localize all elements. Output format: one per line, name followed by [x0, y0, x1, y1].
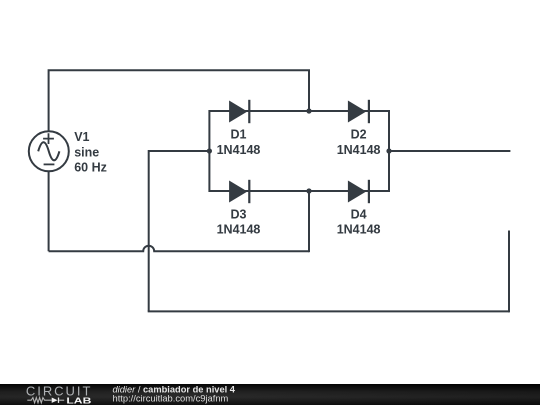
svg-text:1N4148: 1N4148: [217, 223, 261, 237]
wire left tap vertical down: [148, 150, 150, 311]
label D2: [337, 128, 381, 157]
svg-text:D1: D1: [231, 128, 247, 142]
junction node top center: [306, 108, 311, 113]
wire bridge bottom rail: [209, 190, 389, 192]
wire bridge top rail: [209, 110, 389, 112]
svg-text:http://circuitlab.com/c9jafnm: http://circuitlab.com/c9jafnm: [113, 393, 229, 403]
diode D3: [229, 180, 249, 203]
svg-text:V1: V1: [74, 130, 89, 144]
svg-text:60 Hz: 60 Hz: [74, 160, 107, 174]
wire V1 top to bridge top junction: [49, 70, 309, 131]
wire left mid-tap horizontal: [149, 150, 210, 152]
label D4: [337, 208, 381, 237]
wire V1 bottom horizontal with hop over vertical: [49, 246, 309, 251]
svg-text:1N4148: 1N4148: [217, 143, 261, 157]
svg-text:LAB: LAB: [66, 395, 91, 405]
svg-text:D4: D4: [351, 208, 367, 222]
footer bar: [0, 384, 540, 405]
junction node right mid: [386, 148, 391, 153]
wire right mid-tap output: [389, 150, 510, 152]
voltage source V1: [29, 131, 69, 171]
junction node bottom center: [306, 188, 311, 193]
wire bridge right rail: [388, 110, 390, 192]
svg-text:1N4148: 1N4148: [337, 143, 381, 157]
svg-text:sine: sine: [74, 145, 99, 159]
wire V1 bottom down: [48, 171, 50, 251]
junction node left mid: [207, 148, 212, 153]
wire right vertical stub: [508, 231, 510, 313]
diode D2: [348, 100, 369, 123]
svg-text:1N4148: 1N4148: [337, 223, 381, 237]
label V1 name/value: [74, 130, 107, 174]
diode D4: [348, 180, 369, 203]
wire up to D3-D4 junction: [308, 191, 310, 252]
label D3: [217, 208, 261, 237]
CircuitLab logo resistor zigzag and diode: [27, 398, 64, 403]
diode D1: [229, 100, 249, 123]
svg-text:D2: D2: [351, 128, 367, 142]
label D1: [217, 128, 261, 157]
wire bottom long horizontal: [148, 310, 509, 312]
svg-text:D3: D3: [231, 208, 247, 222]
wire bridge left rail: [208, 110, 210, 192]
